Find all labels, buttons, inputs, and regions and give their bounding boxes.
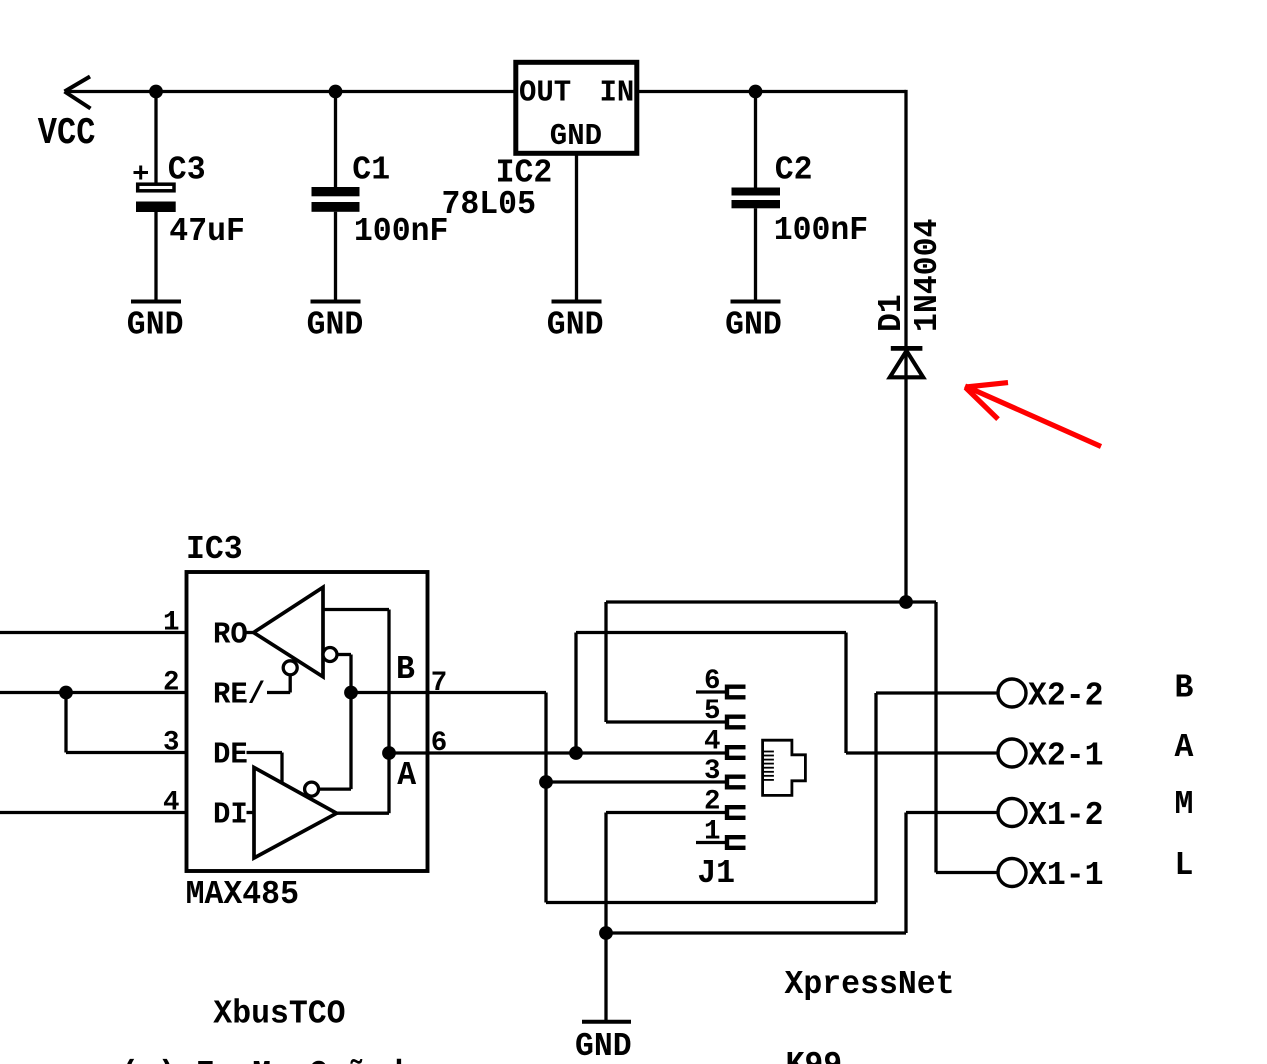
svg-text:B: B — [396, 650, 415, 688]
wire net M J1 pin2 — [606, 811, 726, 814]
bubble receiver enable — [283, 661, 297, 675]
svg-text:5: 5 — [704, 696, 721, 727]
wire pin2-pin3 link — [64, 693, 67, 753]
connector J1 pin6 stub — [696, 690, 726, 693]
svg-text:L: L — [1175, 847, 1194, 885]
svg-text:3: 3 — [704, 756, 721, 787]
wire C1 top — [334, 92, 337, 188]
svg-text:X1-2: X1-2 — [1028, 796, 1104, 834]
diode D1 — [891, 346, 923, 351]
wire B to driver bubble — [349, 693, 352, 790]
svg-text:3: 3 — [163, 728, 180, 759]
annotation red arrow — [965, 383, 1101, 447]
wire A to driver output — [387, 753, 390, 813]
svg-text:100nF: 100nF — [354, 212, 448, 250]
wire net B bottom run — [546, 901, 876, 904]
svg-text:C3: C3 — [168, 151, 206, 189]
svg-text:A: A — [397, 756, 417, 794]
node junction C1/rail — [329, 85, 343, 99]
wire net L to X1-1 — [934, 602, 937, 873]
wire RE/ to enable bubble — [267, 691, 290, 694]
svg-text:4: 4 — [163, 788, 180, 819]
wire net B pin7 run — [428, 691, 547, 694]
power net VCC arrow — [65, 77, 91, 109]
ground GND C2 — [731, 300, 781, 304]
svg-text:XbusTCO: XbusTCO — [213, 995, 345, 1033]
svg-text:2: 2 — [704, 787, 721, 818]
svg-text:GND: GND — [547, 306, 604, 344]
wire C1 bottom — [334, 212, 337, 302]
svg-text:GND: GND — [307, 306, 364, 344]
terminal X2-1 circle — [998, 739, 1026, 767]
ground GND bottom — [582, 1020, 631, 1024]
wire VCC rail left segment — [65, 90, 515, 93]
node junction C3/rail — [149, 85, 163, 99]
svg-text:X2-2: X2-2 — [1028, 677, 1104, 715]
node junction C2/rail — [749, 85, 763, 99]
svg-text:1: 1 — [704, 817, 721, 848]
wire DI internal — [247, 811, 255, 814]
wire D1 to node — [904, 348, 907, 602]
wire IC3 pin1 external — [0, 631, 187, 634]
wire C3 top — [154, 92, 157, 184]
wire DE internal — [247, 751, 283, 754]
wire net L horizontal — [606, 600, 936, 603]
svg-text:(c) F. M. Cañada: (c) F. M. Cañada — [120, 1055, 422, 1064]
bubble receiver inverting input — [323, 648, 337, 662]
wire net M vertical gnd — [604, 813, 607, 1022]
buffer driver triangle — [254, 768, 337, 859]
wire A internal — [389, 751, 428, 754]
svg-text:1: 1 — [163, 608, 180, 639]
ground GND C3 — [131, 300, 181, 304]
svg-text:GND: GND — [550, 118, 602, 153]
ground GND IC2 — [552, 300, 602, 304]
svg-text:7: 7 — [431, 668, 448, 699]
wire C2 top — [754, 92, 757, 188]
capacitor C3 plus sign — [134, 166, 149, 180]
wire net A main run — [428, 751, 726, 754]
wire net A bypass — [574, 633, 577, 754]
svg-text:DI: DI — [213, 797, 248, 832]
wire C2 bottom — [754, 208, 757, 301]
svg-text:GND: GND — [127, 306, 184, 344]
wire B internal — [351, 691, 428, 694]
svg-text:IC3: IC3 — [186, 530, 243, 568]
svg-text:GND: GND — [575, 1027, 632, 1064]
connector J1 pin1 stub — [696, 841, 726, 844]
wire IC2 IN to rail right — [636, 90, 906, 93]
svg-text:47uF: 47uF — [169, 212, 245, 250]
wire rail corner down to D1 — [904, 90, 907, 346]
node junction M/gnd — [599, 926, 613, 940]
ic IC3 box — [187, 572, 428, 871]
wire IC2 GND pin — [575, 153, 578, 301]
svg-text:C2: C2 — [775, 151, 813, 189]
wire net B J1 pin3 — [546, 780, 726, 783]
svg-text:B: B — [1175, 669, 1194, 707]
capacitor C3 — [138, 184, 174, 191]
wire RO to receiver — [247, 631, 254, 634]
wire IC3 pin2 external — [0, 691, 187, 694]
svg-text:C1: C1 — [352, 151, 390, 189]
wire receiver noninv input — [323, 608, 389, 611]
node junction L/D1 — [899, 595, 913, 609]
node junction B/J1pin3 — [539, 775, 553, 789]
node junction B internal — [344, 686, 358, 700]
svg-text:XpressNet: XpressNet — [785, 965, 955, 1003]
capacitor C1 — [312, 187, 360, 196]
svg-text:RE/: RE/ — [213, 677, 265, 712]
svg-text:6: 6 — [704, 666, 721, 697]
terminal X1-2 circle — [998, 799, 1026, 827]
capacitor C2 — [732, 188, 781, 196]
regulator IC2 box — [516, 62, 637, 153]
icon RJ jack — [763, 740, 806, 795]
wire net M bottom run — [606, 931, 906, 934]
svg-text:4: 4 — [704, 727, 721, 758]
svg-text:100nF: 100nF — [774, 211, 868, 249]
svg-text:2: 2 — [163, 668, 180, 699]
svg-text:1N4004: 1N4004 — [908, 219, 946, 332]
node junction A internal — [382, 746, 396, 760]
svg-text:K99: K99 — [786, 1046, 843, 1064]
svg-text:RO: RO — [213, 617, 248, 652]
svg-text:VCC: VCC — [38, 112, 96, 155]
node junction A/vert — [569, 746, 583, 760]
svg-text:IN: IN — [600, 75, 635, 110]
svg-text:X2-1: X2-1 — [1028, 737, 1104, 775]
svg-text:OUT: OUT — [519, 75, 571, 110]
svg-text:78L05: 78L05 — [442, 185, 536, 223]
bubble driver inverting output — [305, 782, 319, 796]
ground GND C1 — [311, 300, 361, 304]
svg-text:GND: GND — [725, 306, 782, 344]
svg-text:J1: J1 — [697, 855, 735, 893]
svg-text:M: M — [1175, 785, 1194, 823]
wire net L to J1 pin5 — [604, 602, 607, 722]
terminal X2-2 circle — [998, 679, 1026, 707]
connector J1 contacts — [727, 687, 746, 848]
svg-text:MAX485: MAX485 — [186, 875, 299, 913]
terminal X1-1 circle — [998, 859, 1026, 887]
svg-text:X1-1: X1-1 — [1028, 856, 1104, 894]
wire inv input to B — [337, 653, 351, 656]
svg-text:DE: DE — [213, 737, 248, 772]
buffer receiver triangle — [254, 587, 323, 677]
svg-text:D1: D1 — [872, 294, 910, 332]
wire IC3 pin4 external — [0, 811, 187, 814]
wire C3 bottom — [154, 212, 157, 302]
node junction pin2/pin3 — [59, 686, 73, 700]
svg-text:A: A — [1175, 728, 1195, 766]
